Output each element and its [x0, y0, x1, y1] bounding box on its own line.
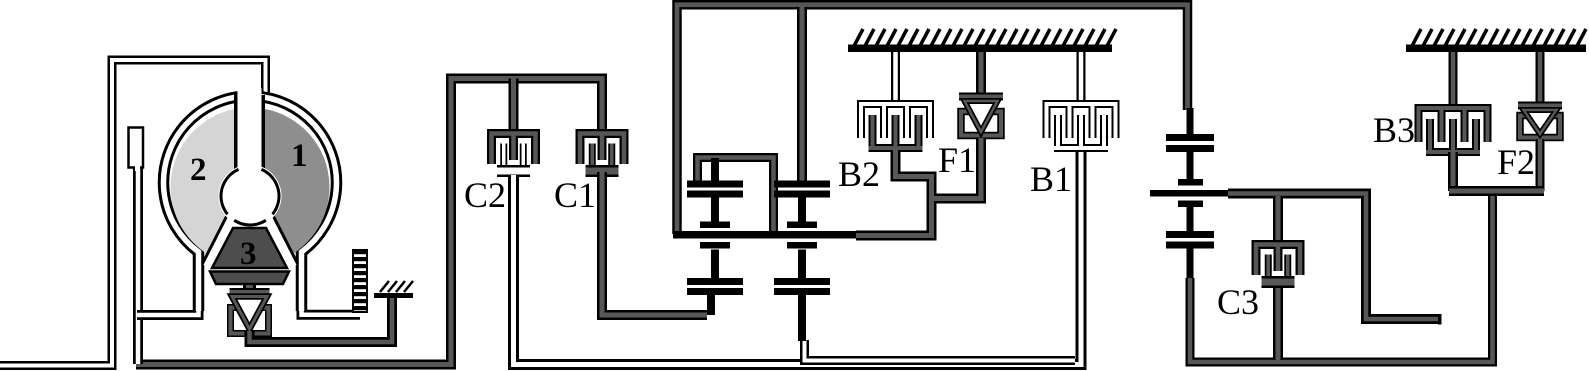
svg-text:B1: B1 [1030, 159, 1072, 199]
svg-text:F2: F2 [1497, 142, 1535, 182]
svg-text:B2: B2 [838, 154, 880, 194]
svg-text:C1: C1 [554, 175, 596, 215]
svg-text:F1: F1 [938, 140, 976, 180]
svg-text:2: 2 [190, 152, 207, 188]
svg-text:3: 3 [240, 236, 257, 272]
svg-text:C3: C3 [1217, 282, 1259, 322]
svg-text:B3: B3 [1373, 110, 1415, 150]
svg-text:C2: C2 [464, 175, 506, 215]
svg-text:1: 1 [291, 138, 308, 174]
